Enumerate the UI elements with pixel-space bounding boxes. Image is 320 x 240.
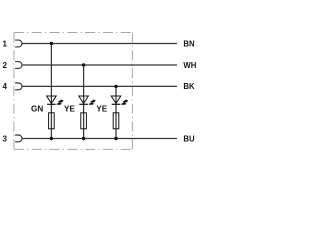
LED D3 (YE) [111, 96, 128, 104]
junction dot BU/branch3 [114, 137, 117, 140]
branch 2 wire (vertical) [83, 65, 85, 139]
pin 1 contact [15, 40, 22, 47]
wire pin3 to BU [22, 138, 177, 140]
pin 4 contact [15, 83, 22, 90]
junction dot wire4/branch3 [114, 85, 117, 88]
LED D2 (YE) [79, 96, 96, 104]
pin 2 contact [15, 62, 22, 69]
resistor R1 [49, 113, 55, 129]
svg-text:2: 2 [2, 61, 7, 70]
resistor R2 [81, 113, 87, 129]
svg-text:BN: BN [183, 39, 195, 48]
svg-text:YE: YE [64, 105, 75, 114]
connector housing dash-dot border [14, 33, 132, 150]
branch 3 wire (vertical) [115, 86, 117, 138]
junction dot BU/branch1 [50, 137, 53, 140]
pin 3 contact [15, 135, 22, 142]
svg-text:3: 3 [2, 134, 7, 143]
junction dot BU/branch2 [82, 137, 85, 140]
svg-text:YE: YE [96, 105, 107, 114]
svg-text:WH: WH [183, 61, 196, 70]
svg-text:BU: BU [183, 134, 195, 143]
wire pin1 to BN [22, 43, 177, 45]
junction dot wire1/branch1 [50, 42, 53, 45]
wire pin4 to BK [22, 85, 177, 87]
svg-text:4: 4 [2, 82, 7, 91]
svg-text:GN: GN [31, 105, 43, 114]
junction dot wire2/branch2 [82, 63, 85, 66]
svg-text:BK: BK [183, 82, 195, 91]
resistor R3 [113, 113, 119, 129]
svg-text:1: 1 [2, 39, 7, 48]
branch 1 wire (vertical) [50, 44, 52, 139]
wire pin2 to WH [22, 64, 177, 66]
LED D1 (GN) [47, 96, 64, 104]
